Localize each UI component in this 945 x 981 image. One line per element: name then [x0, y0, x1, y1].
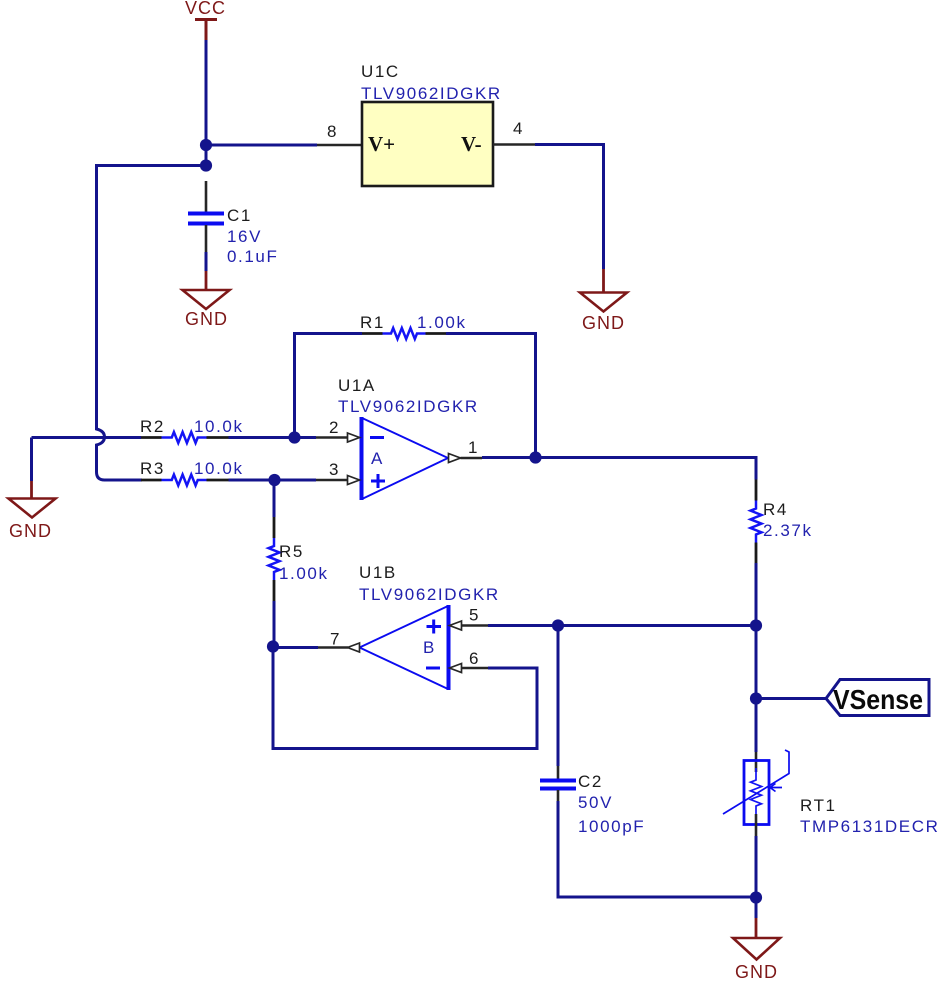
ground GND under U1C pin 4	[580, 269, 627, 333]
svg-text:7: 7	[330, 630, 339, 649]
svg-text:VSense: VSense	[833, 684, 923, 715]
op-amp U1A	[362, 417, 449, 500]
svg-text:R3: R3	[140, 459, 165, 478]
node U1A output junction	[529, 451, 541, 463]
thermistor RT1	[723, 750, 789, 836]
wire C1 to GND	[205, 252, 208, 271]
node pin5/C2 junction	[552, 619, 564, 631]
ground GND under C1	[183, 271, 230, 329]
svg-text:V+: V+	[368, 132, 395, 156]
capacitor C1	[188, 214, 224, 224]
capacitor C2	[540, 781, 576, 789]
wire R4 bottom to pin5 row	[755, 563, 758, 699]
node VCC/left-branch junction	[200, 159, 212, 171]
svg-text:0.1uF: 0.1uF	[227, 247, 278, 266]
wire R5 top	[273, 480, 276, 517]
svg-text:3: 3	[329, 460, 338, 479]
svg-text:RT1: RT1	[800, 796, 837, 815]
svg-text:R2: R2	[140, 417, 165, 436]
resistor R1	[362, 328, 446, 339]
svg-text:C1: C1	[227, 206, 252, 225]
wire VCC vertical	[205, 40, 208, 166]
pin of C1 (top)	[205, 181, 208, 212]
wire VCC to U1C pin 8	[206, 144, 317, 147]
pin 2 of U1A	[316, 418, 360, 442]
svg-text:GND: GND	[185, 309, 228, 329]
wire pin7 node to U1B output	[273, 646, 318, 649]
wire VSense	[756, 697, 826, 700]
svg-text:1: 1	[468, 438, 477, 457]
svg-text:U1C: U1C	[361, 62, 400, 81]
svg-text:5: 5	[469, 606, 478, 625]
node U1B output junction	[267, 640, 279, 652]
wire U1A output to R4 top	[482, 458, 756, 480]
svg-text:TLV9062IDGKR: TLV9062IDGKR	[359, 585, 500, 604]
svg-text:TLV9062IDGKR: TLV9062IDGKR	[361, 84, 502, 103]
svg-text:U1B: U1B	[359, 563, 397, 582]
node U1A pin2 junction	[288, 431, 300, 443]
svg-text:GND: GND	[735, 962, 778, 981]
svg-text:10.0k: 10.0k	[194, 459, 244, 478]
wire R1 feedback left vertical	[295, 334, 363, 438]
pin 4 of U1C	[493, 119, 535, 145]
power VCC	[185, 0, 226, 40]
svg-text:V-: V-	[461, 132, 482, 156]
wire C2 bottom to GND node	[558, 801, 756, 897]
pin of C1 (bottom)	[205, 225, 208, 252]
pin 5 of U1B	[450, 606, 489, 631]
resistor R5	[269, 517, 280, 601]
svg-text:GND: GND	[582, 313, 625, 333]
wire R2 to U1A pin 2 node	[229, 436, 317, 439]
svg-text:A: A	[371, 449, 383, 468]
svg-text:R4: R4	[763, 500, 788, 519]
wire RT1 top	[755, 699, 758, 753]
svg-text:16V: 16V	[227, 227, 262, 246]
wire U1B pin5 to R4 node	[488, 624, 756, 627]
svg-text:C2: C2	[578, 772, 603, 791]
svg-text:10.0k: 10.0k	[194, 417, 244, 436]
svg-text:GND: GND	[9, 521, 52, 541]
svg-text:1000pF: 1000pF	[578, 817, 645, 836]
svg-text:8: 8	[327, 122, 336, 141]
svg-text:1.00k: 1.00k	[417, 313, 467, 332]
wire C2 top	[557, 626, 560, 767]
svg-text:6: 6	[469, 649, 478, 668]
node pin5/R4 junction	[750, 619, 762, 631]
pin 3 of U1A	[316, 460, 360, 485]
ground GND bottom	[733, 918, 780, 981]
wire U1C pin 4 to GND	[535, 145, 604, 270]
wire junction to left branch	[97, 166, 207, 481]
wire to bottom GND	[755, 898, 758, 919]
svg-text:VCC: VCC	[185, 0, 226, 18]
wire RT1 bottom to GND node	[755, 836, 758, 897]
pin 8 of U1C	[317, 122, 361, 145]
op-amp U1B	[360, 605, 449, 690]
svg-text:2: 2	[329, 418, 338, 437]
ground GND left	[9, 438, 56, 542]
svg-text:B: B	[423, 638, 434, 657]
svg-text:4: 4	[513, 119, 522, 138]
resistor R2	[141, 432, 229, 443]
node VCC/pin8 junction	[200, 139, 212, 151]
op-amp power part U1C	[362, 102, 493, 186]
pin of C2 (bottom)	[557, 790, 560, 801]
svg-text:R1: R1	[360, 313, 385, 332]
node VSense junction	[750, 692, 762, 704]
node U1A pin3 junction	[268, 474, 280, 486]
pin 6 of U1B	[450, 649, 489, 673]
svg-text:50V: 50V	[578, 793, 613, 812]
svg-text:R5: R5	[279, 542, 304, 561]
svg-text:TLV9062IDGKR: TLV9062IDGKR	[338, 397, 479, 416]
pin 7 of U1B	[318, 630, 360, 653]
svg-text:1.00k: 1.00k	[279, 564, 329, 583]
wire R5 bottom to pin7 node	[273, 601, 276, 647]
pin of C2 (top)	[557, 766, 560, 779]
resistor R3	[141, 475, 229, 486]
wire U1B pin6 feedback loop	[273, 647, 537, 749]
wire R1 right to output node	[446, 334, 536, 458]
node bottom GND junction	[750, 891, 762, 903]
resistor R4	[751, 480, 762, 564]
pin 1 of U1A	[449, 438, 483, 463]
svg-text:TMP6131DECR: TMP6131DECR	[800, 817, 939, 836]
svg-text:2.37k: 2.37k	[763, 521, 813, 540]
svg-text:U1A: U1A	[338, 376, 376, 395]
wire R3 to U1A pin 3 node	[229, 479, 317, 482]
net label VSense	[826, 680, 929, 716]
wire GND to R2	[32, 436, 142, 439]
